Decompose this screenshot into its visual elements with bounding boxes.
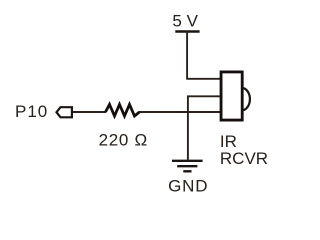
svg-text:5 V: 5 V — [172, 12, 198, 31]
wire GND vertical — [187, 96, 189, 160]
power symbol 5V bar — [175, 30, 199, 33]
svg-text:GND: GND — [168, 177, 208, 196]
IR receiver U1 dome lens — [243, 88, 250, 110]
ground — [172, 161, 203, 172]
wire R1 to U1 OUT pin — [139, 111, 222, 113]
resistor R1 — [106, 104, 140, 116]
wire P10 to R1 — [73, 111, 106, 113]
wire 5V to U1 Vcc pin — [186, 78, 221, 80]
connector tag P10 — [57, 107, 72, 117]
svg-text:RCVR: RCVR — [220, 149, 268, 168]
wire U1 GND pin horizontal — [187, 95, 222, 97]
svg-text:P10: P10 — [15, 102, 48, 121]
wire 5V vertical — [186, 32, 188, 79]
svg-text:220 Ω: 220 Ω — [99, 131, 148, 150]
IR receiver U1 body — [221, 72, 242, 120]
